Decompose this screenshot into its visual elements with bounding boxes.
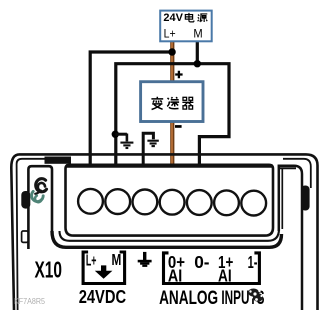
svg-text:M: M — [112, 252, 122, 269]
wire M loop around transmitter to terminals M and 0- — [116, 64, 229, 167]
svg-text:X10: X10 — [35, 257, 63, 283]
svg-text:AI: AI — [218, 265, 232, 285]
brand logo — [32, 179, 47, 203]
terminal 3 earth — [133, 190, 158, 215]
svg-text:M: M — [193, 29, 202, 41]
module cover seam left — [17, 159, 45, 310]
svg-text:L+: L+ — [164, 29, 176, 41]
module left clip — [22, 231, 28, 242]
terminal 7 1- — [241, 191, 266, 216]
power supply PS1 24V电源 — [160, 11, 212, 42]
terminal cover flap edge — [52, 231, 282, 247]
arrow supply input — [95, 265, 113, 278]
node junction on L+ wire — [168, 48, 175, 55]
svg-text:24VDC: 24VDC — [79, 286, 126, 307]
module left end-cap — [28, 166, 52, 249]
wire M from supply box — [196, 41, 199, 63]
bracket box analog input terminals — [164, 253, 260, 284]
terminal 4 0+ — [160, 190, 185, 215]
terminal 2 M — [105, 189, 130, 214]
svg-text:ANALOG: ANALOG — [159, 288, 218, 309]
module hinge band — [45, 157, 72, 164]
transmitter U1 变送器 — [141, 82, 203, 122]
svg-text:AI: AI — [168, 265, 182, 285]
wire L+ supply to transmitter + (orange) — [170, 41, 175, 81]
module right end-cap — [279, 166, 302, 310]
pin label + of transmitter — [175, 71, 182, 78]
terminal block top edge — [66, 164, 273, 167]
ground symbol G1 — [115, 134, 133, 149]
node junction on M loop left branch — [112, 131, 119, 138]
terminal block TB1 — [66, 165, 274, 236]
ground symbol G2 on wire to earth terminal — [143, 133, 159, 166]
terminal 6 1+ — [214, 190, 239, 215]
terminal 1 L+ — [78, 189, 103, 214]
svg-text:0-: 0- — [194, 252, 209, 272]
svg-text:1-: 1- — [248, 252, 258, 272]
module cover seam right — [283, 159, 311, 188]
earth symbol of terminal 3 — [138, 252, 152, 267]
node junction on M wire — [194, 60, 201, 67]
pin label - of transmitter — [175, 125, 182, 128]
watermark blot over INPUTS — [248, 289, 263, 302]
svg-text:L+: L+ — [86, 252, 97, 269]
terminal cover lower outline — [60, 229, 280, 241]
wire L+ node to terminal L+ — [90, 52, 172, 167]
module right latch tab — [301, 186, 310, 211]
module case outline — [11, 154, 317, 310]
bracket box 24VDC terminals — [83, 252, 125, 284]
svg-text:24V: 24V — [163, 12, 183, 24]
svg-text:KF7A8R5: KF7A8R5 — [14, 297, 45, 306]
module left latch tab — [21, 191, 30, 209]
terminal 5 0- — [187, 190, 212, 215]
wire transmitter - to terminal 0+ (orange) — [170, 122, 175, 167]
label X10 — [35, 257, 63, 283]
